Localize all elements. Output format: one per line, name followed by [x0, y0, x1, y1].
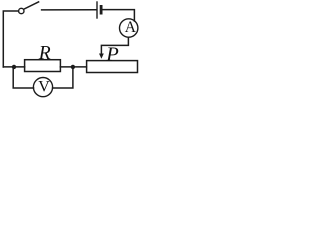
- svg-text:A: A: [125, 19, 137, 36]
- svg-text:V: V: [38, 79, 50, 96]
- svg-text:P: P: [105, 44, 119, 66]
- svg-text:R: R: [38, 43, 51, 64]
